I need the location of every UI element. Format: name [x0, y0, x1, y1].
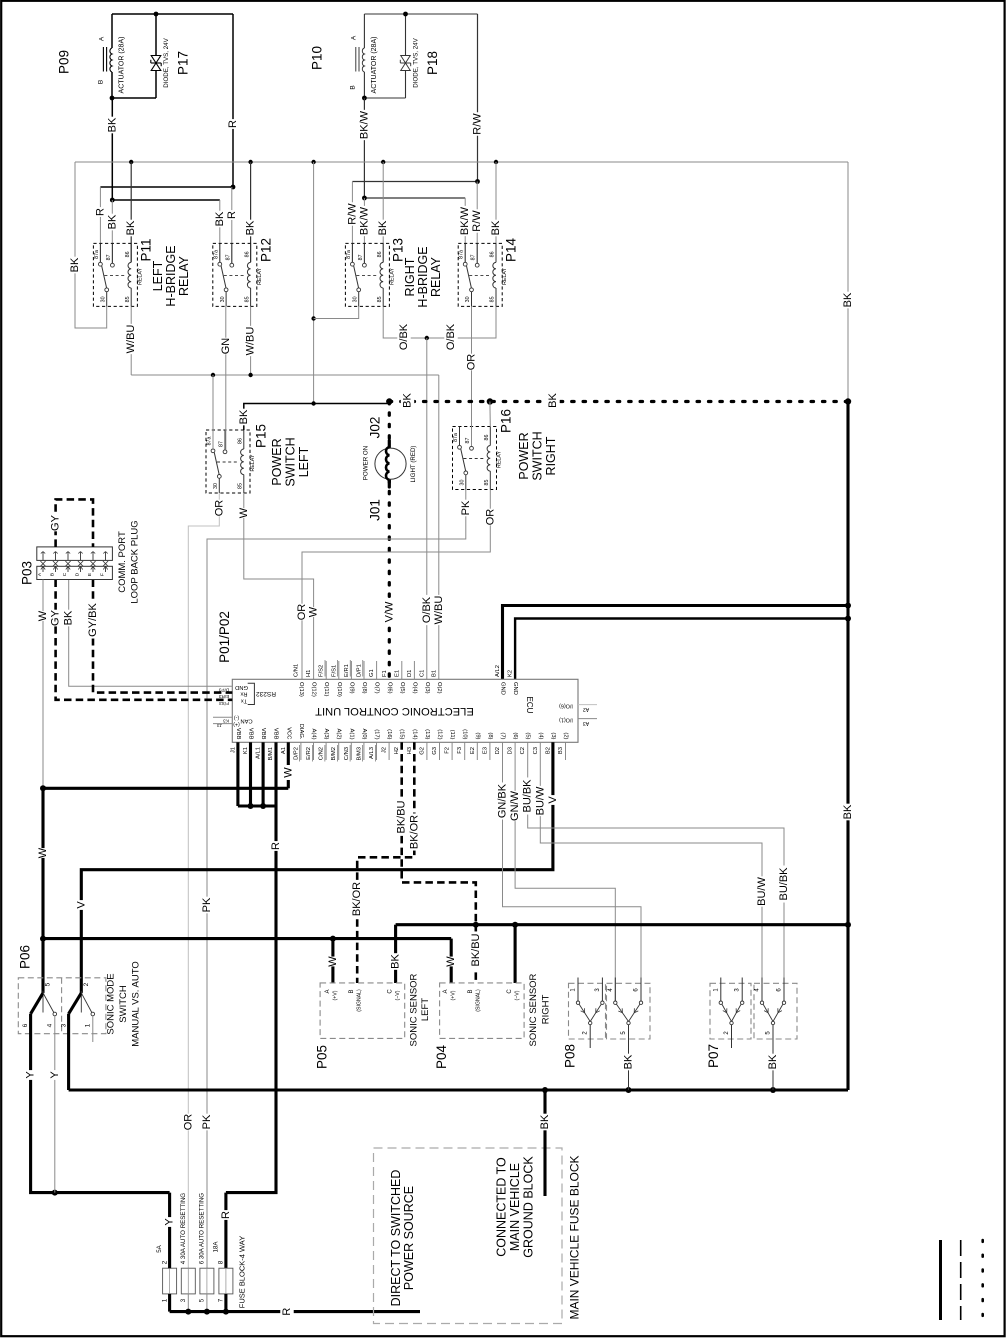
wire W VCC pin A1: [287, 742, 290, 765]
ECU top pin G1 O(7): [376, 661, 378, 679]
relay P13 right H-bridge relay 1 armature link: [356, 274, 376, 276]
ECU top pin F/S2 O(11): [325, 661, 327, 679]
svg-text:2: 2: [83, 982, 90, 986]
relay P16 power switch right pin 30: [465, 475, 467, 490]
relay P11 left H-bridge relay 1 armature link: [104, 274, 124, 276]
svg-text:30: 30: [213, 483, 219, 489]
bus junction dots: [129, 160, 133, 164]
wire W/BU horizontal net: [131, 374, 439, 376]
svg-text:85: 85: [377, 296, 383, 302]
P03 pin D contact: [80, 552, 82, 561]
relay P13 right H-bridge relay 1 box: [345, 243, 389, 306]
svg-text:CAN: CAN: [240, 718, 252, 724]
svg-text:BK: BK: [623, 1054, 635, 1069]
ECU P01/P02 box: [232, 679, 578, 742]
svg-text:O(10): O(10): [336, 682, 342, 697]
wire W horizontal to ECU VCC: [43, 787, 288, 790]
svg-text:VBB: VBB: [248, 728, 254, 740]
svg-text:B/M3: B/M3: [356, 747, 362, 761]
stub BK/W to P14 pin87a: [464, 198, 466, 265]
svg-text:C/N1: C/N1: [294, 664, 300, 677]
svg-text:GN/W: GN/W: [509, 790, 521, 821]
BK power bus top: [75, 161, 848, 163]
svg-text:A1: A1: [281, 747, 287, 754]
svg-text:OR: OR: [484, 509, 496, 526]
wire GN/W from ECU D3 to P08 pin 4: [515, 742, 615, 1001]
svg-text:B: B: [350, 85, 357, 89]
label GY/BK below P03: [86, 601, 99, 638]
svg-text:I/O(1): I/O(1): [559, 716, 573, 722]
svg-text:A(0): A(0): [361, 729, 367, 740]
wire BK bus drop to P13 pin30 and power switch: [313, 162, 315, 404]
relay P14 right H-bridge relay 2 box: [458, 243, 502, 306]
svg-text:W: W: [327, 956, 339, 967]
relay P15 power switch left pin 87a: [212, 430, 214, 449]
svg-text:3: 3: [180, 1298, 187, 1302]
svg-text:J2: J2: [382, 747, 388, 753]
svg-text:85: 85: [490, 296, 496, 302]
wire W from P15 coil 85 to ECU pin H1: [244, 493, 314, 679]
ECU bottom pin C/N2 A(3): [325, 742, 327, 760]
wire O/BK down to ECU pin C1: [426, 338, 428, 679]
wire W down to P06 pin 5: [41, 939, 44, 993]
svg-text:C: C: [62, 572, 68, 576]
svg-text:J3: J3: [217, 723, 222, 728]
svg-text:BK: BK: [390, 954, 402, 969]
relay P12 left H-bridge relay 2 coil: [250, 243, 252, 262]
svg-text:B3: B3: [558, 747, 564, 754]
svg-text:85: 85: [125, 296, 131, 302]
wire OR from P14 pin30 to P16 pin 87: [471, 307, 473, 447]
svg-text:A/L3: A/L3: [369, 747, 375, 759]
relay P14 right H-bridge relay 2 coil: [495, 243, 497, 262]
svg-text:G2: G2: [419, 747, 425, 755]
svg-text:F/S2: F/S2: [319, 665, 325, 677]
wire R distribution line: [100, 186, 233, 188]
wire from P13 pin30 to BK drop: [314, 307, 359, 319]
svg-text:H-BRIDGE: H-BRIDGE: [416, 246, 430, 307]
svg-text:O(4): O(4): [411, 682, 417, 694]
svg-text:(12): (12): [437, 729, 443, 739]
stub R to P12 pin87: [231, 187, 233, 265]
ECU bottom pin E3 (8): [489, 742, 491, 760]
svg-text:E2: E2: [470, 747, 476, 754]
svg-text:VBB: VBB: [273, 728, 279, 740]
svg-text:BK/W: BK/W: [459, 206, 471, 235]
svg-text:87: 87: [358, 254, 364, 260]
svg-text:30A AUTO RESETTING: 30A AUTO RESETTING: [199, 1193, 206, 1259]
junction O/BK: [425, 336, 429, 340]
svg-text:A/L1: A/L1: [256, 747, 262, 759]
svg-text:(10): (10): [462, 729, 468, 739]
wire BK distribution line: [112, 199, 220, 201]
svg-text:D/P1: D/P1: [357, 664, 363, 677]
svg-text:W: W: [445, 956, 457, 967]
svg-text:6: 6: [22, 1023, 29, 1027]
wire VBB thick K1: [249, 742, 252, 806]
svg-text:P17: P17: [176, 51, 191, 75]
wire R/W distribution line: [352, 181, 477, 183]
svg-text:R/W: R/W: [346, 203, 358, 225]
wire BK from P09 to relays: [111, 98, 113, 200]
BK trunk thick vertical: [846, 402, 849, 1091]
ECU top pin E/R1 O(9): [350, 661, 352, 679]
svg-text:O/BK: O/BK: [421, 596, 433, 623]
svg-text:I/O(6): I/O(6): [559, 702, 573, 708]
actuator P10 top wire: [364, 13, 477, 15]
svg-text:OR: OR: [213, 500, 225, 517]
svg-text:RS232: RS232: [256, 690, 276, 697]
fuse 6/5: [200, 1268, 214, 1294]
svg-text:87: 87: [219, 441, 225, 447]
wire R/W from P10 to relays: [477, 14, 479, 182]
svg-text:(8): (8): [487, 732, 493, 739]
ECU right pin I/O(6) A2: [578, 704, 597, 706]
svg-text:BK/BU: BK/BU: [396, 800, 408, 833]
svg-text:GND: GND: [512, 682, 518, 695]
svg-text:RELAY: RELAY: [497, 451, 503, 468]
svg-text:CONNECTED TO: CONNECTED TO: [495, 1157, 509, 1257]
ECU top pin D/P1 O(8): [363, 661, 365, 679]
svg-text:2: 2: [161, 1260, 168, 1264]
svg-text:LEFT: LEFT: [151, 260, 165, 291]
svg-text:P01/P02: P01/P02: [217, 611, 232, 663]
svg-text:(+): (+): [233, 721, 240, 727]
wire GND1 from ECU to BK trunk: [503, 606, 849, 680]
svg-text:LEFT: LEFT: [420, 998, 431, 1021]
svg-text:ELECTRONIC CONTROL UNIT: ELECTRONIC CONTROL UNIT: [315, 705, 474, 717]
svg-text:P16: P16: [499, 409, 514, 433]
svg-text:(7): (7): [500, 732, 506, 739]
svg-text:K3: K3: [223, 718, 229, 723]
actuator P09 top wire: [112, 13, 233, 15]
wire GND2 from ECU to BK trunk: [515, 619, 848, 680]
svg-text:OR: OR: [182, 1114, 194, 1131]
svg-text:BK: BK: [490, 220, 502, 235]
svg-text:BK: BK: [69, 257, 81, 272]
svg-text:J01: J01: [368, 499, 383, 521]
svg-text:O(12): O(12): [311, 682, 317, 697]
ECU bottom pin F2 (11): [451, 742, 453, 760]
svg-text:86: 86: [484, 435, 490, 441]
svg-text:B: B: [50, 573, 56, 576]
svg-text:RIGHT: RIGHT: [544, 436, 558, 475]
wire W thick down from P03 junction: [41, 788, 44, 938]
svg-text:85: 85: [238, 483, 244, 489]
relay P16 power switch right pin 87a: [459, 427, 461, 446]
svg-text:BK/W: BK/W: [358, 206, 370, 235]
svg-text:F3: F3: [457, 747, 463, 754]
svg-text:G1: G1: [369, 669, 375, 677]
svg-text:86: 86: [377, 251, 383, 257]
P03 pin F contact: [105, 552, 107, 561]
svg-text:PK: PK: [201, 897, 213, 912]
stub R to P11 pin87a: [99, 187, 101, 265]
P03 connector boxes: [37, 547, 113, 561]
actuator P09 coil: [111, 14, 113, 48]
svg-text:R: R: [281, 1308, 293, 1316]
junction dots P09: [154, 12, 159, 17]
svg-text:O(11): O(11): [323, 682, 329, 696]
svg-text:BK/OR: BK/OR: [408, 815, 420, 849]
svg-text:F: F: [100, 573, 106, 576]
svg-text:E/R1: E/R1: [344, 664, 350, 677]
VBB bus: [238, 804, 276, 807]
wire W bus to sonic sensors: [43, 937, 451, 940]
wire BK from P08 pin 5 to ground bus: [628, 1025, 630, 1090]
wire PK from P16 pin30 to fuse 3: [207, 490, 466, 1269]
GY dashed loopback B to E: [56, 499, 93, 547]
svg-text:30: 30: [460, 480, 466, 486]
svg-text:(6): (6): [512, 732, 518, 739]
relay P12 left H-bridge relay 2 box: [213, 243, 257, 306]
svg-text:C: C: [507, 989, 513, 994]
svg-text:R: R: [270, 842, 282, 850]
ECU bottom pin B/M3 A(0): [363, 742, 365, 760]
svg-text:BU/BK: BU/BK: [778, 867, 790, 901]
wire W to P05 pin A: [331, 939, 334, 983]
relay P11 left H-bridge relay 1 pin 30: [106, 292, 108, 307]
relay P14 right H-bridge relay 2 pin 87: [476, 243, 478, 263]
svg-text:P14: P14: [504, 238, 519, 263]
relay P15 power switch left switch blade: [214, 453, 219, 475]
svg-text:5: 5: [199, 1298, 206, 1302]
svg-text:R: R: [94, 208, 106, 216]
connector P08 cell pins 4/6/5: [614, 978, 616, 1002]
svg-text:H3: H3: [407, 747, 413, 754]
svg-text:BU/W: BU/W: [534, 786, 546, 815]
svg-text:8: 8: [218, 1260, 225, 1264]
svg-text:E3: E3: [482, 747, 488, 754]
svg-text:BK: BK: [767, 1054, 779, 1069]
wire W/BU from P12 coil 85: [250, 307, 252, 376]
ECU bottom pin E/R2 A(4): [313, 742, 315, 760]
wire BK from P06 pin 3 to ground bus: [67, 1014, 70, 1090]
wire BK bus right drop: [847, 162, 849, 402]
wire W from P03 pin A: [42, 580, 44, 789]
svg-text:W: W: [308, 606, 320, 617]
P03 pin E contact: [92, 552, 94, 561]
actuator P10 bottom wire: [364, 97, 405, 99]
svg-text:4: 4: [180, 1260, 187, 1264]
svg-text:H2: H2: [394, 747, 400, 754]
svg-text:B2: B2: [545, 747, 551, 754]
svg-text:(4): (4): [537, 732, 543, 739]
svg-text:30: 30: [100, 296, 106, 302]
svg-text:SONIC SENSOR: SONIC SENSOR: [528, 973, 539, 1046]
svg-text:DIODE, TVS, 24V: DIODE, TVS, 24V: [413, 37, 420, 87]
wire VBB thick J1: [236, 742, 239, 806]
relay P13 right H-bridge relay 1 coil: [382, 243, 384, 262]
relay P16 power switch right pin 87: [471, 427, 473, 447]
ECU bottom pin C/N3 A(1): [350, 742, 352, 760]
svg-text:VBB: VBB: [260, 728, 266, 740]
indicator light bulb wire stubs: [388, 441, 391, 450]
svg-text:O(2): O(2): [436, 682, 442, 694]
svg-text:BK: BK: [842, 804, 854, 819]
wire BK from P07 pin 5 to ground bus: [772, 1025, 774, 1090]
svg-text:R/W: R/W: [472, 113, 484, 135]
wire BK bus to sensor -V pins: [396, 923, 848, 926]
wire Y thick from P06 pin 6 to fuse 2: [31, 1014, 170, 1193]
BK ground bus bottom: [69, 1088, 848, 1091]
wire BK dotted drop to P16 coil 86: [489, 402, 491, 427]
svg-text:POWER SOURCE: POWER SOURCE: [402, 1186, 416, 1290]
svg-text:B/M1: B/M1: [268, 747, 274, 761]
svg-text:VCC: VCC: [285, 727, 291, 739]
svg-text:A(4): A(4): [311, 729, 317, 740]
svg-text:87a: 87a: [453, 433, 459, 442]
svg-text:(14): (14): [411, 729, 417, 739]
wire OR from P15 pin30 to fuse 2: [188, 493, 219, 1268]
wire O/BK from P13 coil 85: [383, 307, 427, 339]
svg-text:K1: K1: [243, 747, 249, 754]
svg-text:D1: D1: [407, 670, 413, 677]
svg-text:(SIGNAL): (SIGNAL): [357, 989, 363, 1012]
relay P11 left H-bridge relay 1 box: [93, 243, 137, 306]
svg-text:MAIN VEHICLE: MAIN VEHICLE: [508, 1163, 522, 1251]
svg-text:B1: B1: [431, 670, 437, 677]
svg-text:3: 3: [60, 1023, 67, 1027]
relay P16 power switch right box: [453, 427, 497, 490]
svg-text:GND: GND: [500, 682, 506, 695]
svg-text:SWITCH: SWITCH: [531, 431, 545, 480]
fuse 2/1: [163, 1268, 177, 1294]
label GY below P03: [49, 610, 62, 627]
ECU bottom pin B/M2 A(2): [338, 742, 340, 760]
relay P11 left H-bridge relay 1 pin 87a: [99, 243, 101, 262]
svg-text:85: 85: [244, 296, 250, 302]
svg-text:RELAY: RELAY: [137, 267, 143, 284]
svg-text:87a: 87a: [459, 250, 465, 259]
svg-text:V/W: V/W: [383, 601, 395, 622]
svg-text:SWITCH: SWITCH: [284, 437, 298, 486]
svg-text:RELAY: RELAY: [257, 267, 263, 284]
wire VBB thick A/L1: [262, 742, 265, 806]
wire BU/BK from ECU C2 to P07 pin 6: [528, 742, 784, 1001]
svg-text:87a: 87a: [207, 437, 213, 446]
connector P07 cell pins 4/6/5: [761, 978, 763, 1002]
svg-text:B/M2: B/M2: [331, 747, 337, 761]
svg-text:COMM. PORT: COMM. PORT: [117, 531, 128, 593]
svg-text:30A AUTO RESETTING: 30A AUTO RESETTING: [180, 1193, 187, 1259]
svg-text:30: 30: [465, 296, 471, 302]
dotted BK junction dots: [386, 398, 392, 404]
svg-text:GROUND BLOCK: GROUND BLOCK: [522, 1156, 536, 1258]
svg-text:(17): (17): [374, 729, 380, 739]
relay P16 power switch right coil: [489, 427, 491, 446]
svg-text:P04: P04: [434, 1045, 449, 1070]
svg-text:(11): (11): [449, 730, 455, 740]
wire GN from P12 pin30 to P15 pin 87: [225, 307, 227, 451]
P03 pin B contact: [55, 552, 57, 561]
stub BK/W to P13 pin87: [363, 198, 365, 265]
svg-text:B: B: [98, 80, 105, 84]
svg-text:D3: D3: [508, 747, 514, 754]
svg-text:RELAY: RELAY: [429, 256, 443, 297]
svg-text:DIRECT TO SWITCHED: DIRECT TO SWITCHED: [389, 1170, 403, 1307]
svg-text:RIGHT: RIGHT: [541, 995, 552, 1025]
wire BK to P11 coil 86: [130, 162, 132, 262]
svg-text:G3: G3: [432, 747, 438, 755]
label BK below P03: [62, 610, 75, 627]
svg-text:MANUAL VS. AUTO: MANUAL VS. AUTO: [131, 961, 142, 1047]
svg-text:1: 1: [161, 1298, 168, 1302]
wire OR from P16 coil 85 to ECU pin C/N1: [302, 490, 490, 680]
svg-text:(3): (3): [550, 732, 556, 739]
svg-text:SONIC SENSOR: SONIC SENSOR: [409, 973, 420, 1046]
svg-text:RELAY: RELAY: [177, 255, 191, 296]
svg-text:A(2): A(2): [336, 729, 342, 740]
ECU top pin D1 O(4): [413, 661, 415, 679]
svg-text:30: 30: [220, 296, 226, 302]
wire BK to P05 pin C: [394, 925, 397, 983]
svg-text:O(9): O(9): [348, 682, 354, 694]
ECU CAN pins: [213, 716, 232, 718]
svg-text:R: R: [226, 211, 238, 219]
svg-text:A(3): A(3): [323, 729, 329, 740]
fuse 8/7: [219, 1268, 233, 1294]
svg-text:P11: P11: [139, 238, 154, 261]
svg-text:O(5): O(5): [399, 682, 405, 694]
actuator P09 bottom wire: [112, 97, 156, 99]
svg-text:V: V: [547, 796, 559, 804]
wire BK to P12 coil 86: [250, 162, 252, 262]
TVS diode P17: [155, 14, 157, 56]
svg-text:GN/BK: GN/BK: [497, 783, 509, 818]
relay P15 power switch left coil: [243, 430, 245, 449]
svg-text:D: D: [75, 572, 81, 576]
P06 switch pole at 81.3: [80, 991, 82, 1013]
svg-text:E/R2: E/R2: [306, 747, 312, 760]
svg-text:B: B: [468, 989, 474, 993]
svg-text:O(8): O(8): [361, 682, 367, 694]
svg-text:GND: GND: [235, 684, 248, 690]
svg-text:Y: Y: [164, 1218, 176, 1226]
svg-text:P15: P15: [254, 424, 269, 448]
svg-text:E1: E1: [394, 670, 400, 677]
svg-text:(13): (13): [424, 729, 430, 739]
svg-text:87: 87: [465, 438, 471, 444]
svg-text:C: C: [388, 989, 394, 994]
wire O/BK from P14 coil 85: [427, 307, 496, 339]
svg-text:SONIC MODE: SONIC MODE: [106, 973, 117, 1034]
svg-text:BK: BK: [539, 1114, 551, 1129]
ECU bottom pin B3 (2): [565, 742, 567, 760]
svg-text:SWITCH: SWITCH: [118, 985, 129, 1023]
svg-text:J02: J02: [368, 417, 383, 439]
stub W/BU to P15 pin 87a: [212, 375, 214, 450]
svg-text:BK/BU: BK/BU: [470, 933, 482, 966]
svg-text:BK: BK: [547, 393, 559, 408]
main vehicle fuse block dashed box: [374, 1148, 563, 1324]
svg-text:P09: P09: [57, 50, 72, 74]
junction dots P10: [403, 12, 408, 17]
svg-text:LOOP BACK PLUG: LOOP BACK PLUG: [130, 520, 141, 603]
svg-text:P03: P03: [20, 561, 35, 585]
P06 pin 1 stub: [92, 1016, 94, 1042]
ECU bottom pin G2 (13): [426, 742, 428, 760]
svg-text:18A: 18A: [213, 1241, 220, 1253]
actuator P09 core lines: [102, 47, 104, 72]
svg-text:5A: 5A: [156, 1244, 163, 1252]
wire R bottom bus to power source: [170, 1310, 420, 1313]
svg-text:4: 4: [47, 1023, 54, 1027]
wire BK/OR dashed from ECU H3 to P05 pin B: [357, 742, 414, 983]
connector P08 box B: [607, 983, 651, 1039]
svg-text:W/BU: W/BU: [125, 325, 137, 354]
svg-text:BK: BK: [238, 409, 250, 424]
